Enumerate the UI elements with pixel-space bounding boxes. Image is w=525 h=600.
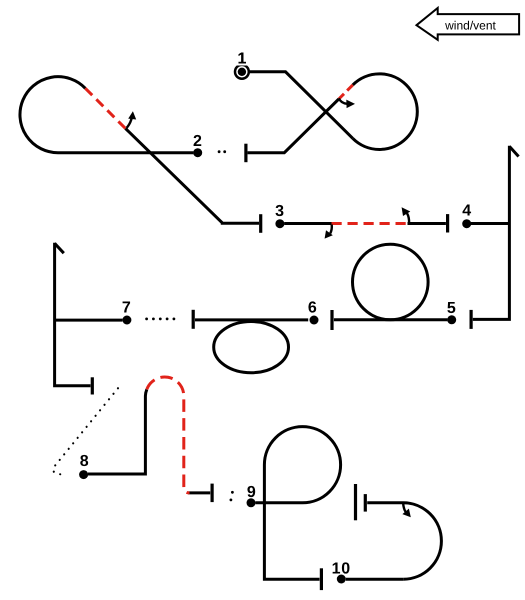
svg-text:9: 9 (247, 484, 256, 501)
wire start 1 to figure-eight (249, 72, 353, 139)
wire dot2 to left loop (20, 77, 193, 153)
waypoint dot 3 (275, 219, 284, 228)
jump bar D after 5 (470, 310, 473, 329)
wire bar F to 6 (195, 318, 308, 321)
dotted pair before 9 (231, 491, 234, 494)
waypoint dot 6 (310, 316, 319, 325)
waypoint dot 10 (337, 575, 346, 584)
finish short bar (364, 494, 367, 512)
waypoint dot 2 (193, 148, 202, 157)
jump bar A before 2 (244, 144, 247, 163)
direction arrow on final arc (403, 503, 406, 512)
direction arrow at left loop exit (127, 117, 132, 128)
wire 7 to left vertical (55, 319, 123, 322)
svg-text:1: 1 (237, 51, 246, 68)
dotted pair after 2 (218, 150, 221, 153)
direction arrow up before 4 (407, 213, 409, 223)
left vertical line (55, 243, 91, 386)
wire 3 to 4 solid parts (284, 222, 446, 225)
direction arrow on figure-eight (339, 98, 347, 104)
dotted run between 7 and bar F (145, 318, 148, 321)
wire 10 to final arc (346, 578, 403, 581)
svg-text:6: 6 (308, 300, 317, 317)
red dashed arch between 8 and 9 (147, 377, 190, 493)
wire 4 to right vertical (471, 222, 509, 225)
waypoint dot 8 (79, 470, 88, 479)
flag tick right vertical (509, 146, 518, 156)
flag tick left vertical (55, 243, 64, 253)
jump bar H before 9 (211, 484, 214, 503)
wire 9 into loop (255, 501, 302, 504)
svg-text:5: 5 (447, 300, 456, 317)
wire loop exit diagonal to obstacle 3 approach (125, 128, 259, 223)
wire 8 up to arch (88, 389, 147, 474)
jump bar I before 10 (320, 568, 323, 590)
svg-text:10: 10 (332, 561, 351, 578)
svg-text:wind/vent: wind/vent (444, 19, 496, 33)
svg-text:7: 7 (122, 300, 131, 317)
red dashed segment between 3 and 4 (332, 222, 408, 225)
right vertical line (473, 146, 510, 320)
jump bar C before 4 (446, 214, 449, 232)
wire arch bottom to bar H (188, 491, 210, 494)
direction arrow down after 3 (330, 225, 332, 234)
start ring 1 (235, 65, 249, 79)
waypoint dot 7 (122, 316, 131, 325)
wind/vent arrow box (417, 8, 520, 40)
svg-text:8: 8 (80, 453, 89, 470)
svg-text:2: 2 (193, 133, 202, 150)
jump bar G bottom left (91, 377, 94, 394)
loop circle of figure-eight (353, 74, 418, 150)
wire 5 to bar E (334, 318, 448, 321)
waypoint dot 4 (462, 219, 471, 228)
dotted approach curve to 8 (53, 388, 118, 475)
jump bar F after 6 (192, 310, 195, 329)
red dashed segment on figure-eight entry (339, 85, 353, 99)
svg-text:4: 4 (462, 203, 471, 220)
jump bar E before 6 (330, 310, 333, 330)
wire figure-eight exit diagonal (248, 99, 339, 153)
loop ellipse between 6 and 7 (214, 322, 289, 373)
loop circle between 5 and 6 (353, 244, 429, 320)
red dashed exit of left loop (85, 88, 125, 128)
jump bar B before 3 (259, 214, 262, 233)
finish tall bar (354, 484, 357, 520)
loop circle at 9 (264, 427, 340, 580)
svg-text:3: 3 (275, 203, 284, 220)
waypoint dot 5 (447, 315, 456, 324)
waypoint dot 9 (247, 498, 256, 507)
final half-circle arc (367, 503, 441, 579)
